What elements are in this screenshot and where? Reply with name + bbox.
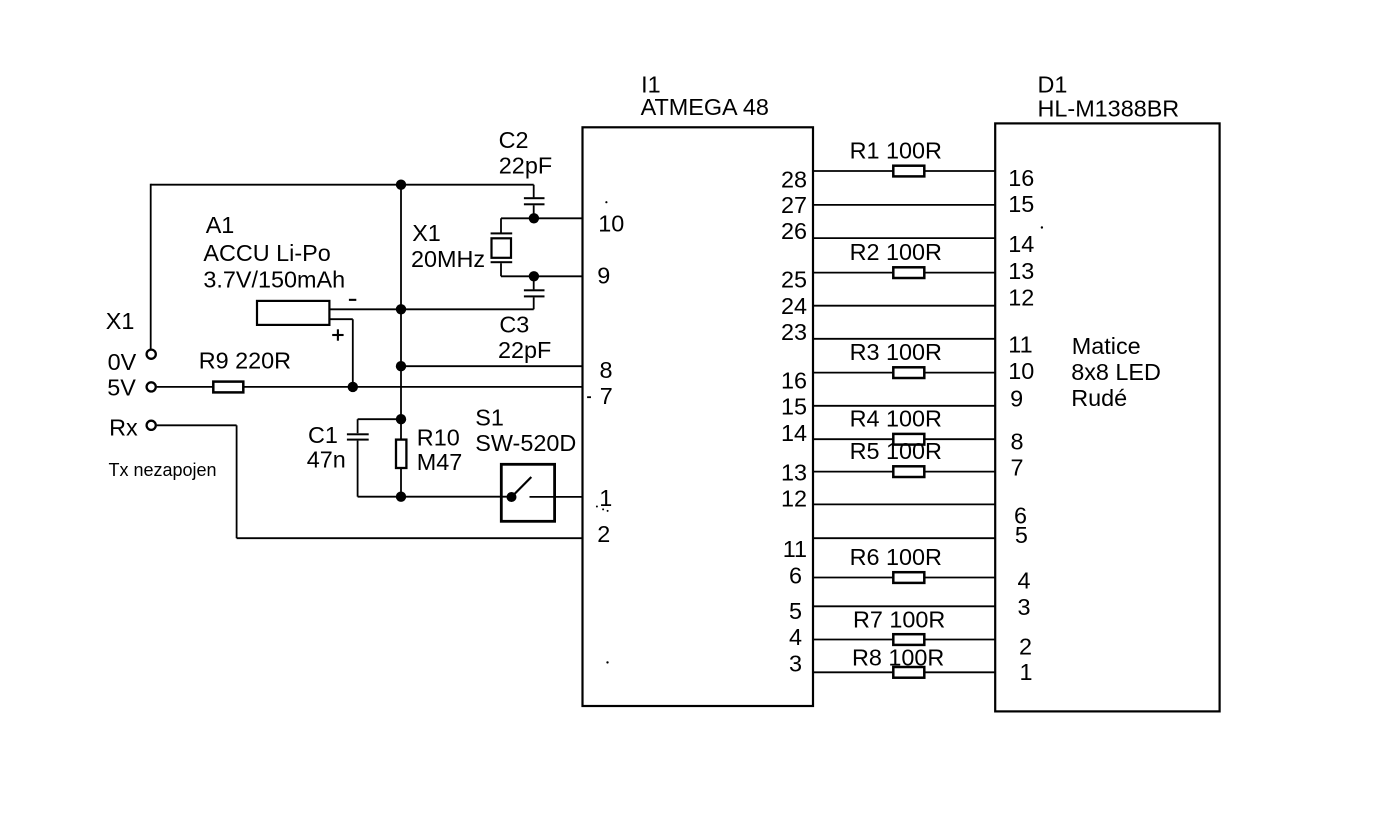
svg-text:1: 1	[1020, 659, 1033, 685]
terminal 5V (X1 pin)	[147, 382, 156, 391]
crystal X1 top plate	[491, 232, 513, 234]
capacitor C1 plates	[347, 433, 369, 435]
wire: R10 bottom lead	[400, 468, 402, 497]
junction: GND vertical x battery minus line	[396, 304, 406, 314]
svg-text:22pF: 22pF	[498, 337, 551, 363]
wire: bus line 1 (y=171.0)	[813, 170, 995, 172]
capacitor C3 plates	[524, 289, 545, 291]
svg-text:R2 100R: R2 100R	[850, 239, 942, 265]
capacitor C2 bottom lead	[533, 205, 535, 218]
wire: bus line 7 (y=372.6)	[813, 372, 995, 374]
svg-text:8x8 LED: 8x8 LED	[1071, 359, 1161, 385]
junction: C3 on pin9 wire	[529, 271, 539, 281]
svg-text:10: 10	[1008, 358, 1034, 384]
display D1 HL-M1388BR box	[995, 123, 1219, 711]
resistor R4 body	[893, 434, 924, 445]
wire: 0V rail top horizontal	[151, 184, 534, 186]
svg-text:9: 9	[1010, 385, 1023, 411]
wire: bus line 11 (y=504.4)	[813, 503, 995, 505]
wire: battery plus lead horizontal	[329, 318, 353, 320]
svg-text:M47: M47	[417, 449, 463, 475]
svg-text:24: 24	[781, 293, 807, 319]
svg-text:Matice: Matice	[1072, 333, 1141, 359]
svg-text:28: 28	[781, 166, 807, 192]
svg-text:27: 27	[781, 192, 807, 218]
svg-text:16: 16	[781, 367, 807, 393]
resistor R6 body	[893, 572, 924, 583]
svg-text:14: 14	[781, 420, 807, 446]
capacitor C2 top lead	[533, 185, 535, 198]
svg-text:12: 12	[781, 486, 807, 512]
wire: bus line 15 (y=639.5)	[813, 639, 995, 641]
wire: bus line 16 (y=672.3)	[813, 671, 995, 673]
terminal 0V (X1 pin)	[147, 350, 156, 359]
wire: bus line 6 (y=338.8)	[813, 338, 995, 340]
svg-text:9: 9	[597, 263, 610, 289]
svg-text:3.7V/150mAh: 3.7V/150mAh	[203, 267, 345, 293]
svg-text:S1: S1	[475, 405, 504, 431]
junction: GND vertical x top rail	[396, 180, 406, 190]
wire: 5V line to ATMEGA pin 7	[157, 386, 583, 388]
svg-text:10: 10	[598, 211, 624, 237]
junction: C1/R10 top node	[396, 414, 406, 424]
svg-text:SW-520D: SW-520D	[475, 430, 576, 456]
resistor R10 body (vertical)	[396, 440, 406, 468]
wire: C1 top stub	[358, 418, 401, 420]
svg-text:4: 4	[789, 624, 802, 650]
svg-text:13: 13	[781, 460, 807, 486]
svg-text:16: 16	[1008, 165, 1034, 191]
speck artifacts	[605, 201, 607, 203]
resistor R8 body	[893, 667, 924, 678]
svg-text:3: 3	[1018, 594, 1031, 620]
svg-text:R4 100R: R4 100R	[850, 406, 942, 432]
svg-text:Tx nezapojen: Tx nezapojen	[109, 460, 217, 480]
wire: bottom node line to switch S1	[358, 496, 512, 498]
svg-text:1: 1	[599, 485, 612, 511]
terminal Rx (X1 pin)	[147, 421, 156, 430]
svg-text:ATMEGA 48: ATMEGA 48	[641, 94, 769, 120]
wire: bus line 13 (y=577.5)	[813, 577, 995, 579]
svg-text:15: 15	[1008, 191, 1034, 217]
wire: bus line 3 (y=238.1)	[813, 237, 995, 239]
svg-text:8: 8	[600, 357, 613, 383]
wire: bus line 5 (y=305.7)	[813, 305, 995, 307]
svg-text:14: 14	[1008, 231, 1034, 257]
svg-text:X1: X1	[412, 220, 441, 246]
wire: bus line 10 (y=471.6)	[813, 471, 995, 473]
svg-text:8: 8	[1011, 428, 1024, 454]
wire: Rx vertical drop	[236, 425, 238, 538]
svg-text:3: 3	[789, 651, 802, 677]
junction: C2 on pin10 wire	[529, 213, 539, 223]
wire: battery minus lead to GND rail / C3 bottom	[329, 308, 534, 310]
svg-text:11: 11	[1008, 332, 1032, 358]
svg-text:5: 5	[1015, 522, 1028, 548]
svg-text:0V: 0V	[108, 349, 137, 375]
svg-text:C2: C2	[499, 127, 529, 153]
junction: GND vertical x pin8 wire	[396, 361, 406, 371]
wire: ATMEGA pin 8 to GND vertical	[401, 365, 583, 367]
crystal X1 bottom lead	[500, 263, 502, 276]
junction: C1/R10 bottom node	[396, 492, 406, 502]
svg-text:7: 7	[1011, 455, 1024, 481]
wire: Rx horizontal from terminal	[157, 424, 237, 426]
resistor R5 body	[893, 466, 924, 477]
crystal X1 bottom plate	[491, 261, 513, 263]
wire: bus line 9 (y=439.2)	[813, 438, 995, 440]
resistor R9 body	[213, 382, 243, 393]
battery plus sign	[332, 334, 343, 336]
switch S1 box	[501, 464, 554, 521]
crystal X1 top lead	[500, 218, 502, 232]
resistor R2 body	[893, 267, 924, 278]
wire: 0V terminal vertical riser	[150, 184, 152, 349]
svg-text:HL-M1388BR: HL-M1388BR	[1038, 96, 1180, 122]
svg-text:47n: 47n	[307, 446, 346, 472]
wire: bus line 14 (y=606.3)	[813, 605, 995, 607]
wire: pin 9 (XTAL2)	[501, 275, 583, 277]
wire: battery plus lead vertical to 5V line	[352, 319, 354, 387]
svg-text:4: 4	[1018, 568, 1031, 594]
IC I1 ATMEGA 48 box	[583, 127, 814, 706]
svg-text:R5 100R: R5 100R	[850, 438, 942, 464]
battery A1 ACCU Li-Po body	[257, 301, 329, 325]
resistor R1 body	[893, 166, 924, 177]
crystal X1 body	[492, 238, 512, 257]
svg-text:ACCU Li-Po: ACCU Li-Po	[203, 240, 330, 266]
capacitor C2 plates	[524, 197, 545, 199]
svg-text:R1 100R: R1 100R	[850, 137, 942, 163]
svg-text:R6 100R: R6 100R	[850, 544, 942, 570]
svg-text:2: 2	[1019, 633, 1032, 659]
svg-text:D1: D1	[1038, 72, 1068, 98]
switch S1 lever	[513, 477, 531, 496]
svg-text:12: 12	[1008, 284, 1034, 310]
capacitor C3 bottom lead	[533, 297, 535, 309]
wire: bus line 8 (y=405.8)	[813, 405, 995, 407]
svg-text:R9 220R: R9 220R	[199, 348, 291, 374]
svg-text:26: 26	[781, 218, 807, 244]
svg-text:20MHz: 20MHz	[411, 246, 485, 272]
svg-text:R7 100R: R7 100R	[853, 607, 945, 633]
svg-text:R3 100R: R3 100R	[850, 339, 942, 365]
wire: bus line 4 (y=272.6)	[813, 272, 995, 274]
wire: Rx to ATMEGA pin 2	[237, 537, 583, 539]
svg-text:23: 23	[781, 319, 807, 345]
svg-text:C1: C1	[308, 422, 338, 448]
wire: S1 to ATMEGA pin 1	[530, 496, 583, 498]
svg-text:Rx: Rx	[109, 415, 138, 441]
resistor R7 body	[893, 634, 924, 645]
junction: battery + on 5V line	[348, 382, 358, 392]
svg-text:13: 13	[1008, 258, 1034, 284]
svg-text:5V: 5V	[107, 375, 136, 401]
svg-text:15: 15	[781, 394, 807, 420]
wire: pin 10 (XTAL1)	[501, 217, 583, 219]
svg-text:11: 11	[783, 536, 807, 562]
svg-text:R8 100R: R8 100R	[852, 644, 944, 670]
wire: main GND vertical (x=401)	[400, 185, 402, 440]
svg-text:22pF: 22pF	[499, 152, 552, 178]
svg-text:25: 25	[781, 266, 807, 292]
svg-text:Rudé: Rudé	[1071, 385, 1127, 411]
svg-text:6: 6	[789, 563, 802, 589]
svg-text:7: 7	[600, 383, 613, 409]
capacitor C1 top lead	[357, 419, 359, 433]
svg-text:2: 2	[597, 521, 610, 547]
svg-text:C3: C3	[499, 311, 529, 337]
wire: bus line 2 (y=204.9)	[813, 204, 995, 206]
switch S1 contact dot	[507, 492, 517, 502]
wire: bus line 12 (y=538.2)	[813, 537, 995, 539]
capacitor C3 top lead	[533, 276, 535, 289]
svg-text:A1: A1	[206, 212, 235, 238]
battery minus sign	[349, 299, 356, 301]
svg-text:X1: X1	[106, 308, 135, 334]
capacitor C1 bottom lead	[357, 441, 359, 497]
svg-text:5: 5	[789, 598, 802, 624]
resistor R3 body	[893, 367, 924, 378]
svg-text:R10: R10	[417, 424, 460, 450]
